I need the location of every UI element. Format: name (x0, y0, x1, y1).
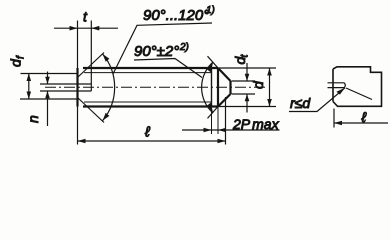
svg-text:90°...120°: 90°...120° (143, 7, 209, 24)
svg-text:1): 1) (206, 5, 215, 16)
dt extension lines (232, 81, 256, 94)
centerline (main axis) (45, 86, 266, 88)
side l ext line (333, 109, 335, 128)
d label (rotated) (250, 80, 266, 89)
svg-text:r≤d: r≤d (290, 95, 311, 111)
l right ext line (225, 97, 227, 145)
n dimension line (47, 72, 49, 127)
right cone angle arc (202, 62, 214, 113)
thread minor line top (84, 72, 212, 74)
side view slot (328, 83, 345, 88)
slot bottom / t right ext (90, 21, 92, 92)
thread end boundary (211, 68, 213, 107)
l dimension (main view) (78, 140, 226, 142)
df extension lines (20, 74, 78, 100)
slot profile lines (40, 84, 91, 91)
svg-text:n: n (25, 115, 41, 123)
underline + leader to right arc (134, 59, 202, 78)
df label (rotated) (8, 55, 27, 67)
side view outline (333, 67, 382, 107)
n label (rotated) (25, 115, 41, 123)
svg-text:ℓ: ℓ (361, 109, 367, 125)
svg-text:d: d (250, 80, 266, 89)
svg-text:t: t (240, 54, 251, 58)
cone point outline (218, 68, 231, 107)
underline + leader to left arc (113, 23, 212, 74)
screw bottom edge + d bottom ext (83, 105, 218, 107)
r leader with arrow (289, 88, 345, 112)
svg-text:t: t (83, 9, 88, 25)
df dimension line (28, 74, 30, 100)
left chamfer angle arc (103, 54, 115, 121)
svg-text:2Pmax: 2Pmax (232, 116, 280, 132)
dt label (rotated) (232, 54, 251, 65)
svg-text:2): 2) (179, 42, 189, 53)
svg-text:ℓ: ℓ (144, 125, 150, 141)
chamfer line lower (with extension) (78, 98, 104, 123)
d dimension line (269, 68, 271, 107)
svg-text:f: f (16, 55, 27, 59)
left face / t-ext / l-ext vertical (77, 21, 79, 69)
side l dimension line (334, 122, 388, 124)
dt dimension line (246, 63, 248, 113)
cone line extensions (208, 56, 219, 118)
slot bottom variant (radius) line (346, 88, 372, 100)
2P max dimension (182, 129, 280, 131)
thread minor line bottom (84, 101, 212, 103)
svg-text:90°±2°: 90°±2° (134, 43, 179, 60)
t dimension line (54, 27, 118, 29)
cone base line + 2P right ext (217, 68, 219, 107)
screw top edge + d top ext (83, 67, 218, 69)
chamfer line upper (with extension) (78, 53, 104, 78)
